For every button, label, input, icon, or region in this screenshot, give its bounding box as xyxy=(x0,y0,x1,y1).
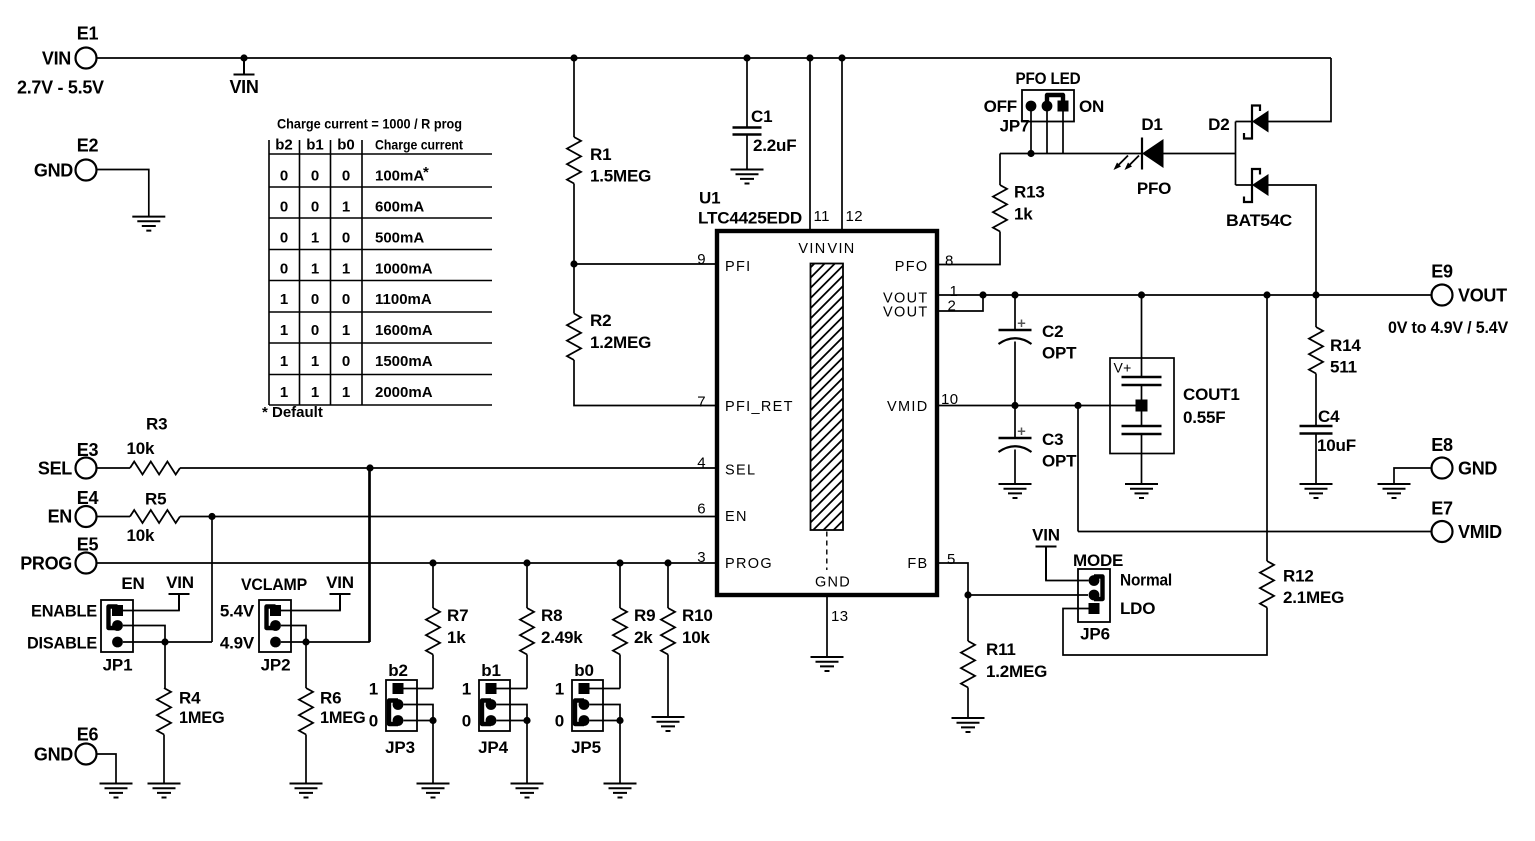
exposed pad (hatched) xyxy=(811,264,844,531)
wire VIN to C1 xyxy=(746,58,748,128)
svg-text:2.49k: 2.49k xyxy=(541,628,583,647)
turret terminal E3 xyxy=(76,458,97,479)
LED D1 xyxy=(1141,138,1143,170)
svg-text:FB: FB xyxy=(907,556,928,572)
wire COUT1 mid2 xyxy=(1141,411,1143,426)
svg-text:0: 0 xyxy=(311,168,319,185)
wire R9 to JP5 xyxy=(619,655,621,689)
svg-text:b0: b0 xyxy=(574,661,593,680)
wire R8 to JP4 xyxy=(526,655,528,689)
junction JP5 common xyxy=(616,717,623,724)
wire SEL line xyxy=(180,467,717,469)
svg-text:E4: E4 xyxy=(77,488,99,508)
wire PROG line xyxy=(97,562,718,564)
wire PROG to R8 xyxy=(526,563,528,608)
svg-text:2.7V - 5.5V: 2.7V - 5.5V xyxy=(17,78,104,98)
wire C3 to ground xyxy=(1014,450,1016,485)
svg-text:JP1: JP1 xyxy=(103,656,133,675)
svg-text:1: 1 xyxy=(311,384,319,401)
junction FB node xyxy=(964,591,971,598)
svg-text:1: 1 xyxy=(280,291,288,308)
svg-text:9: 9 xyxy=(697,251,706,268)
turret terminal E7 xyxy=(1432,521,1453,542)
svg-text:JP2: JP2 xyxy=(261,656,291,675)
junction pin11 xyxy=(806,54,813,61)
svg-text:10k: 10k xyxy=(682,628,711,647)
ground E2 xyxy=(132,217,165,231)
wire JP4 to ground xyxy=(526,721,528,784)
svg-text:C2: C2 xyxy=(1042,322,1063,341)
resistor R5 body xyxy=(130,510,180,523)
svg-text:b2: b2 xyxy=(388,661,407,680)
svg-text:R7: R7 xyxy=(447,606,468,625)
wire C2 to VMID xyxy=(1014,342,1016,406)
svg-text:C4: C4 xyxy=(1318,407,1340,426)
svg-text:GND: GND xyxy=(1458,459,1497,479)
svg-text:1: 1 xyxy=(555,680,564,699)
resistor R9 body xyxy=(613,608,627,655)
svg-text:JP7: JP7 xyxy=(1000,117,1030,136)
svg-text:R14: R14 xyxy=(1330,336,1361,355)
wire PROG to R7 xyxy=(432,563,434,608)
wire R13/JP7 to D1 xyxy=(1000,153,1142,155)
svg-text:0: 0 xyxy=(342,353,350,370)
svg-text:MODE: MODE xyxy=(1073,551,1123,570)
svg-text:2.1MEG: 2.1MEG xyxy=(1283,588,1344,607)
svg-text:0: 0 xyxy=(280,168,288,185)
turret terminal E6 xyxy=(76,744,97,765)
wire D2 bottom anode to VOUT xyxy=(1269,185,1317,295)
svg-text:1.2MEG: 1.2MEG xyxy=(986,662,1047,681)
dashed lead to GND pad xyxy=(826,532,828,571)
ground C4 xyxy=(1300,484,1333,498)
svg-text:R5: R5 xyxy=(145,490,166,509)
ground JP4 xyxy=(511,784,544,798)
wire R2 to pin 7 PFI_RET xyxy=(574,360,717,406)
wire D2 bottom stub xyxy=(1236,184,1253,186)
svg-text:V+: V+ xyxy=(1114,360,1132,376)
svg-text:100mA: 100mA xyxy=(375,168,424,185)
svg-text:JP6: JP6 xyxy=(1080,625,1110,644)
svg-text:BAT54C: BAT54C xyxy=(1226,211,1292,230)
turret terminal E1 xyxy=(76,48,97,69)
jumper JP3 xyxy=(386,680,417,731)
svg-text:VMID: VMID xyxy=(887,399,928,415)
svg-text:R3: R3 xyxy=(146,415,167,434)
wire VOUT to R12 xyxy=(1266,295,1268,561)
wire JP1 pin2 xyxy=(123,626,165,643)
svg-text:b1: b1 xyxy=(481,661,500,680)
wire R10 to ground xyxy=(667,655,669,718)
svg-text:R10: R10 xyxy=(682,606,713,625)
wire to R13 xyxy=(999,154,1001,186)
junction R14 xyxy=(1312,291,1319,298)
svg-text:2000mA: 2000mA xyxy=(375,384,433,401)
svg-text:0: 0 xyxy=(342,168,350,185)
svg-text:EN: EN xyxy=(121,574,144,593)
svg-text:1: 1 xyxy=(280,353,288,370)
svg-text:VIN: VIN xyxy=(42,49,71,69)
wire VOUT into COUT1 xyxy=(1141,295,1143,377)
wire JP2 pin3 to SEL branch xyxy=(281,468,369,642)
svg-text:1.5MEG: 1.5MEG xyxy=(590,167,651,186)
svg-text:b0: b0 xyxy=(337,137,355,154)
wire pin 12 xyxy=(841,58,843,231)
power tap VIN at JP2 xyxy=(330,594,351,611)
jumper JP5 xyxy=(572,680,603,731)
resistor R11 body xyxy=(961,641,975,688)
wire JP4 pin3 xyxy=(497,720,528,722)
svg-text:JP3: JP3 xyxy=(385,738,415,757)
ground R10 xyxy=(652,717,685,731)
svg-text:R12: R12 xyxy=(1283,567,1314,586)
svg-text:1100mA: 1100mA xyxy=(375,291,432,308)
svg-text:GND: GND xyxy=(34,745,73,765)
wire COUT1 to ground xyxy=(1141,434,1143,484)
svg-text:R1: R1 xyxy=(590,145,611,164)
wire VIN to R1 xyxy=(573,58,575,137)
svg-text:C1: C1 xyxy=(751,107,772,126)
svg-text:C3: C3 xyxy=(1042,430,1063,449)
capacitor C2 (polarized) xyxy=(999,329,1032,331)
resistor R10 body xyxy=(661,608,675,655)
svg-text:VIN: VIN xyxy=(229,77,258,97)
svg-text:VCLAMP: VCLAMP xyxy=(241,575,307,594)
ground pin 13 xyxy=(811,657,844,671)
svg-text:0: 0 xyxy=(342,230,350,247)
turret terminal E9 xyxy=(1432,285,1453,306)
wire JP5 pin1 xyxy=(590,688,621,690)
svg-text:Charge current = 1000 / R prog: Charge current = 1000 / R prog xyxy=(277,116,462,132)
jumper JP6 (MODE) xyxy=(1078,569,1110,622)
svg-text:LTC4425EDD: LTC4425EDD xyxy=(698,209,802,228)
wire JP5 pin2 xyxy=(590,705,621,721)
svg-text:1.2MEG: 1.2MEG xyxy=(590,333,651,352)
svg-text:10uF: 10uF xyxy=(1317,436,1356,455)
ground COUT1 xyxy=(1125,484,1158,498)
wire JP7 pin2 down xyxy=(1046,106,1048,154)
svg-text:1: 1 xyxy=(462,680,471,699)
svg-text:12: 12 xyxy=(846,208,864,225)
svg-text:VOUT: VOUT xyxy=(883,305,928,321)
svg-text:COUT1: COUT1 xyxy=(1183,385,1240,404)
svg-text:11: 11 xyxy=(814,208,830,225)
resistor R13 body xyxy=(993,185,1007,232)
ground C1 xyxy=(731,170,764,184)
svg-text:8: 8 xyxy=(945,253,954,270)
svg-text:0: 0 xyxy=(311,322,319,339)
svg-text:1: 1 xyxy=(342,199,350,216)
svg-text:b1: b1 xyxy=(306,137,324,154)
svg-text:R8: R8 xyxy=(541,606,562,625)
svg-text:GND: GND xyxy=(815,575,851,591)
svg-text:1500mA: 1500mA xyxy=(375,353,433,370)
svg-text:U1: U1 xyxy=(699,189,720,208)
power tap VIN at JP6 xyxy=(1036,547,1057,581)
svg-text:R11: R11 xyxy=(986,640,1016,659)
resistor R4 body xyxy=(157,688,171,735)
svg-text:1: 1 xyxy=(311,230,319,247)
svg-text:D1: D1 xyxy=(1141,115,1162,134)
resistor R12 body xyxy=(1260,561,1274,608)
junction JP4 common xyxy=(523,717,530,724)
svg-text:1: 1 xyxy=(342,261,350,278)
wire JP3 to ground xyxy=(432,721,434,784)
svg-text:5.4V: 5.4V xyxy=(220,602,255,621)
ground R6 xyxy=(290,784,323,798)
svg-text:1000mA: 1000mA xyxy=(375,261,433,278)
svg-text:4: 4 xyxy=(697,455,706,472)
ground E6 xyxy=(100,784,133,798)
svg-text:LDO: LDO xyxy=(1120,599,1155,618)
svg-text:10k: 10k xyxy=(127,439,156,458)
wire R6 to ground xyxy=(305,735,307,784)
junction JP2/R6 xyxy=(302,638,309,645)
svg-text:b2: b2 xyxy=(275,137,293,154)
svg-text:1: 1 xyxy=(280,322,288,339)
wire JP7 pin3 down xyxy=(1062,106,1064,154)
wire R4 to ground xyxy=(163,735,165,784)
svg-text:VOUT: VOUT xyxy=(1458,286,1507,306)
junction PFI node xyxy=(570,260,577,267)
junction pin2 join xyxy=(979,291,986,298)
svg-text:*: * xyxy=(423,164,429,181)
junction C1 top xyxy=(743,54,750,61)
supercapacitor COUT1 xyxy=(1110,358,1174,454)
junction SEL to JP2 xyxy=(366,464,373,471)
svg-text:1600mA: 1600mA xyxy=(375,322,433,339)
svg-text:PFI: PFI xyxy=(725,259,751,275)
power tap VIN at JP1 xyxy=(169,594,190,611)
svg-text:511: 511 xyxy=(1330,358,1357,377)
ground R11 xyxy=(952,718,985,732)
wire to R6 xyxy=(305,642,307,688)
wire D2 common cathode xyxy=(1235,122,1237,186)
svg-text:R6: R6 xyxy=(320,689,341,708)
svg-text:600mA: 600mA xyxy=(375,199,424,216)
svg-text:0.55F: 0.55F xyxy=(1183,408,1225,427)
svg-text:1MEG: 1MEG xyxy=(320,708,366,727)
svg-text:0: 0 xyxy=(462,712,471,731)
wire VMID line pin 10 xyxy=(937,405,1136,407)
wire VMID rail to E7 xyxy=(1078,531,1432,533)
svg-text:GND: GND xyxy=(34,161,73,181)
junction PROG R7 xyxy=(429,559,436,566)
svg-text:PFO LED: PFO LED xyxy=(1016,69,1081,88)
svg-text:E1: E1 xyxy=(77,24,99,44)
svg-text:0: 0 xyxy=(280,230,288,247)
wire R11 to ground xyxy=(967,688,969,719)
svg-text:PROG: PROG xyxy=(725,556,773,572)
junction JP3 common xyxy=(429,717,436,724)
svg-text:0: 0 xyxy=(280,261,288,278)
wire PROG to R9 xyxy=(619,563,621,608)
ground C3 xyxy=(999,484,1032,498)
svg-text:E2: E2 xyxy=(77,136,99,156)
svg-text:2.2uF: 2.2uF xyxy=(753,136,796,155)
junction pin12 xyxy=(838,54,845,61)
wire SEL branch down to JP2 xyxy=(369,468,371,642)
wire E3 to R3 xyxy=(97,467,131,469)
svg-text:R13: R13 xyxy=(1014,183,1045,202)
wire R1 to PFI node xyxy=(573,184,575,265)
svg-text:E5: E5 xyxy=(77,535,99,555)
jumper JP2 xyxy=(259,600,291,652)
wire JP1 pin3 to EN branch xyxy=(123,641,212,643)
svg-text:Normal: Normal xyxy=(1120,571,1172,590)
svg-text:1MEG: 1MEG xyxy=(179,708,225,727)
junction JP7/R13 xyxy=(1027,150,1034,157)
svg-text:0V to 4.9V / 5.4V: 0V to 4.9V / 5.4V xyxy=(1388,318,1509,337)
wire to R4 xyxy=(164,642,166,688)
svg-text:EN: EN xyxy=(725,509,748,525)
junction VMID/C2C3 xyxy=(1011,402,1018,409)
wire R13 to pin 8 PFO xyxy=(937,232,1000,265)
wire FB to JP6 xyxy=(968,594,1088,596)
wire C1 to ground xyxy=(746,135,748,170)
svg-text:SEL: SEL xyxy=(38,459,72,479)
wire FB to R11 xyxy=(967,595,969,641)
svg-text:0: 0 xyxy=(369,712,378,731)
jumper JP1 xyxy=(101,600,133,652)
wire pin 2 VOUT xyxy=(937,295,983,311)
wire PROG to R10 xyxy=(667,563,669,608)
junction PROG R10 xyxy=(664,559,671,566)
svg-text:1: 1 xyxy=(311,353,319,370)
wire C4 to ground xyxy=(1315,434,1317,485)
wire D2 top stub xyxy=(1236,121,1253,123)
svg-text:JP4: JP4 xyxy=(478,738,508,757)
wire JP3 pin2 xyxy=(404,705,434,721)
svg-text:1: 1 xyxy=(280,384,288,401)
D2 bottom schottky xyxy=(1244,169,1260,202)
turret terminal E2 xyxy=(76,160,97,181)
junction COUT1 xyxy=(1138,291,1145,298)
wire JP5 to ground xyxy=(619,721,621,784)
svg-text:1: 1 xyxy=(342,384,350,401)
svg-text:VIN: VIN xyxy=(166,573,194,592)
svg-text:0: 0 xyxy=(280,199,288,216)
wire JP2 pin2 xyxy=(281,626,306,643)
wire VOUT to C2 xyxy=(1014,295,1016,330)
resistor R14 body xyxy=(1309,327,1323,374)
svg-text:VIN: VIN xyxy=(1032,526,1060,545)
svg-text:SEL: SEL xyxy=(725,463,756,479)
wire JP6 pin3 to R12 xyxy=(1063,608,1267,656)
svg-text:* Default: * Default xyxy=(262,404,323,421)
D1 emission arrows xyxy=(1117,156,1139,167)
junction VIN tap xyxy=(240,54,247,61)
svg-text:OFF: OFF xyxy=(984,97,1017,116)
wire VMID to C3 xyxy=(1014,406,1016,439)
wire D2 top anode to VIN xyxy=(1269,58,1332,122)
svg-text:1: 1 xyxy=(342,322,350,339)
svg-text:4.9V: 4.9V xyxy=(220,634,255,653)
wire EN branch down to JP1 xyxy=(211,517,213,643)
junction VMID/E7 xyxy=(1074,402,1081,409)
svg-text:500mA: 500mA xyxy=(375,230,424,247)
wire E4 to R5 xyxy=(97,516,131,518)
ground R4 xyxy=(148,784,181,798)
wire R14 to C4 xyxy=(1315,374,1317,427)
svg-text:0: 0 xyxy=(555,712,564,731)
svg-text:R4: R4 xyxy=(179,689,201,708)
wire VOUT rail xyxy=(983,294,1432,296)
resistor R7 body xyxy=(426,608,440,655)
svg-text:PFI_RET: PFI_RET xyxy=(725,399,794,415)
junction PROG R8 xyxy=(523,559,530,566)
resistor R2 body xyxy=(567,314,581,361)
capacitor C1 xyxy=(733,128,762,135)
resistor R6 body xyxy=(299,688,313,735)
ground JP3 xyxy=(417,784,450,798)
svg-text:EN: EN xyxy=(48,507,72,527)
D2 top schottky xyxy=(1244,106,1260,139)
wire JP4 pin2 xyxy=(497,705,528,721)
svg-text:0: 0 xyxy=(311,199,319,216)
wire VOUT to R14 xyxy=(1315,295,1317,327)
wire VMID branch down xyxy=(1077,406,1079,532)
svg-text:PFO: PFO xyxy=(1137,179,1171,198)
ground JP5 xyxy=(604,784,637,798)
svg-text:E9: E9 xyxy=(1431,262,1453,282)
wire pin 5 FB xyxy=(937,563,968,595)
resistor R8 body xyxy=(520,608,534,655)
svg-text:R2: R2 xyxy=(590,311,611,330)
turret terminal E5 xyxy=(76,553,97,574)
svg-text:13: 13 xyxy=(831,608,849,625)
svg-text:E7: E7 xyxy=(1431,499,1453,519)
svg-text:ENABLE: ENABLE xyxy=(31,602,97,621)
wire D1 to D2 common xyxy=(1164,153,1236,155)
junction R12 xyxy=(1263,291,1270,298)
svg-text:OPT: OPT xyxy=(1042,452,1077,471)
wire EN line xyxy=(180,516,717,518)
wire JP1 pin1 to VIN tap xyxy=(123,594,179,611)
junction JP1/R4 xyxy=(161,638,168,645)
svg-text:VMID: VMID xyxy=(1458,522,1502,542)
svg-text:6: 6 xyxy=(697,501,706,518)
svg-text:Charge current: Charge current xyxy=(375,137,463,153)
wire pin 1 VOUT xyxy=(937,294,983,296)
svg-text:ON: ON xyxy=(1079,97,1104,116)
svg-text:VIN: VIN xyxy=(828,241,856,257)
wire node to R2 xyxy=(573,264,575,314)
wire E8 to ground xyxy=(1394,468,1432,484)
resistor R1 body xyxy=(567,137,581,184)
svg-text:1: 1 xyxy=(311,261,319,278)
wire JP2 pin1 to VIN tap xyxy=(281,594,340,611)
power tap VIN at rail xyxy=(234,58,255,75)
jumper JP7 (PFO LED) xyxy=(1022,90,1074,122)
svg-text:E8: E8 xyxy=(1431,435,1453,455)
wire JP3 pin1 xyxy=(404,688,434,690)
turret terminal E8 xyxy=(1432,458,1453,479)
turret terminal E4 xyxy=(76,506,97,527)
svg-text:2: 2 xyxy=(948,298,957,315)
svg-text:JP5: JP5 xyxy=(571,738,601,757)
svg-text:0: 0 xyxy=(342,291,350,308)
svg-text:VIN: VIN xyxy=(326,573,354,592)
svg-text:5: 5 xyxy=(947,551,956,568)
svg-text:E3: E3 xyxy=(77,440,99,460)
svg-text:PFO: PFO xyxy=(895,259,929,275)
svg-text:1: 1 xyxy=(369,680,378,699)
svg-text:E6: E6 xyxy=(77,725,99,745)
svg-text:R9: R9 xyxy=(634,606,655,625)
junction EN to JP1 xyxy=(208,513,215,520)
wire R7 to JP3 xyxy=(432,655,434,689)
